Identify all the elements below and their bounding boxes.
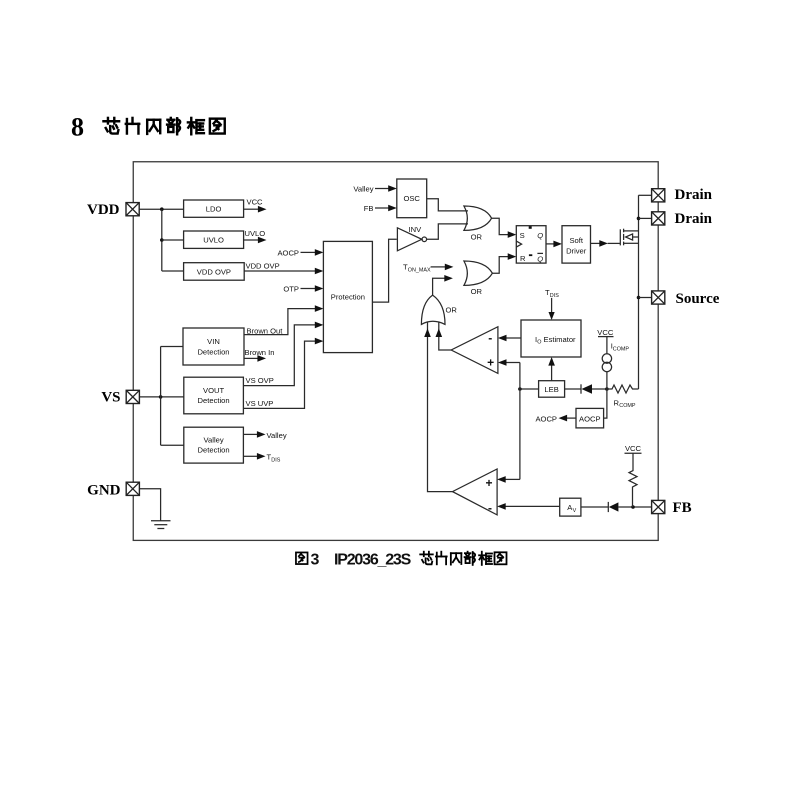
svg-text:AOCP: AOCP xyxy=(277,248,299,257)
svg-text:Brown In: Brown In xyxy=(245,348,275,357)
svg-text:UVLO: UVLO xyxy=(245,229,266,238)
svg-text:-: - xyxy=(488,331,492,345)
svg-text:VCC: VCC xyxy=(625,444,642,453)
svg-text:ON_MAX: ON_MAX xyxy=(408,267,431,273)
svg-text:DIS: DIS xyxy=(271,457,280,463)
svg-text:Brown Out: Brown Out xyxy=(247,326,284,335)
svg-text:VS UVP: VS UVP xyxy=(246,399,274,408)
svg-text:OTP: OTP xyxy=(283,285,299,294)
svg-text:V: V xyxy=(573,508,577,514)
svg-text:Detection: Detection xyxy=(198,396,230,405)
svg-text:Drain: Drain xyxy=(675,187,713,203)
svg-text:VS: VS xyxy=(101,390,120,406)
svg-text:VOUT: VOUT xyxy=(203,386,224,395)
svg-text:-: - xyxy=(488,501,492,515)
svg-text:S: S xyxy=(520,231,525,240)
svg-text:Source: Source xyxy=(676,291,720,307)
svg-text:GND: GND xyxy=(87,482,121,498)
svg-text:OR: OR xyxy=(446,306,458,315)
svg-text:+: + xyxy=(485,476,492,490)
svg-text:3: 3 xyxy=(311,552,320,569)
svg-text:VS OVP: VS OVP xyxy=(246,376,274,385)
svg-text:VCC: VCC xyxy=(247,198,264,207)
svg-text:OR: OR xyxy=(471,287,483,296)
svg-text:Drain: Drain xyxy=(675,211,713,227)
svg-text:FB: FB xyxy=(673,500,692,516)
svg-text:OSC: OSC xyxy=(403,194,420,203)
svg-text:Q: Q xyxy=(537,231,543,240)
svg-text:8: 8 xyxy=(71,113,84,142)
svg-text:+: + xyxy=(487,356,494,370)
svg-text:VIN: VIN xyxy=(207,337,220,346)
svg-text:Soft: Soft xyxy=(569,236,583,245)
svg-text:Valley: Valley xyxy=(267,431,287,440)
svg-text:Driver: Driver xyxy=(566,246,587,255)
svg-text:INV: INV xyxy=(409,225,423,234)
svg-text:COMP: COMP xyxy=(619,403,636,409)
svg-text:COMP: COMP xyxy=(613,347,630,353)
svg-text:O: O xyxy=(537,340,541,346)
svg-text:VDD: VDD xyxy=(87,202,120,218)
svg-text:Protection: Protection xyxy=(331,293,365,302)
svg-text:OR: OR xyxy=(471,232,483,241)
svg-text:VDD OVP: VDD OVP xyxy=(246,262,280,271)
svg-text:VDD OVP: VDD OVP xyxy=(197,267,231,276)
svg-text:Valley: Valley xyxy=(353,185,373,194)
svg-text:Q: Q xyxy=(537,254,543,263)
svg-text:FB: FB xyxy=(364,204,374,213)
svg-text:Estimator: Estimator xyxy=(544,335,577,344)
svg-text:VCC: VCC xyxy=(597,328,614,337)
svg-text:LEB: LEB xyxy=(544,385,558,394)
svg-text:LDO: LDO xyxy=(206,205,222,214)
svg-text:R: R xyxy=(520,254,526,263)
svg-text:AOCP: AOCP xyxy=(579,414,601,423)
svg-text:Detection: Detection xyxy=(197,347,229,356)
svg-text:Detection: Detection xyxy=(198,446,230,455)
svg-text:AOCP: AOCP xyxy=(535,414,557,423)
svg-text:UVLO: UVLO xyxy=(203,236,224,245)
svg-text:Valley: Valley xyxy=(204,435,224,444)
svg-text:IP2036_23S: IP2036_23S xyxy=(334,552,412,569)
